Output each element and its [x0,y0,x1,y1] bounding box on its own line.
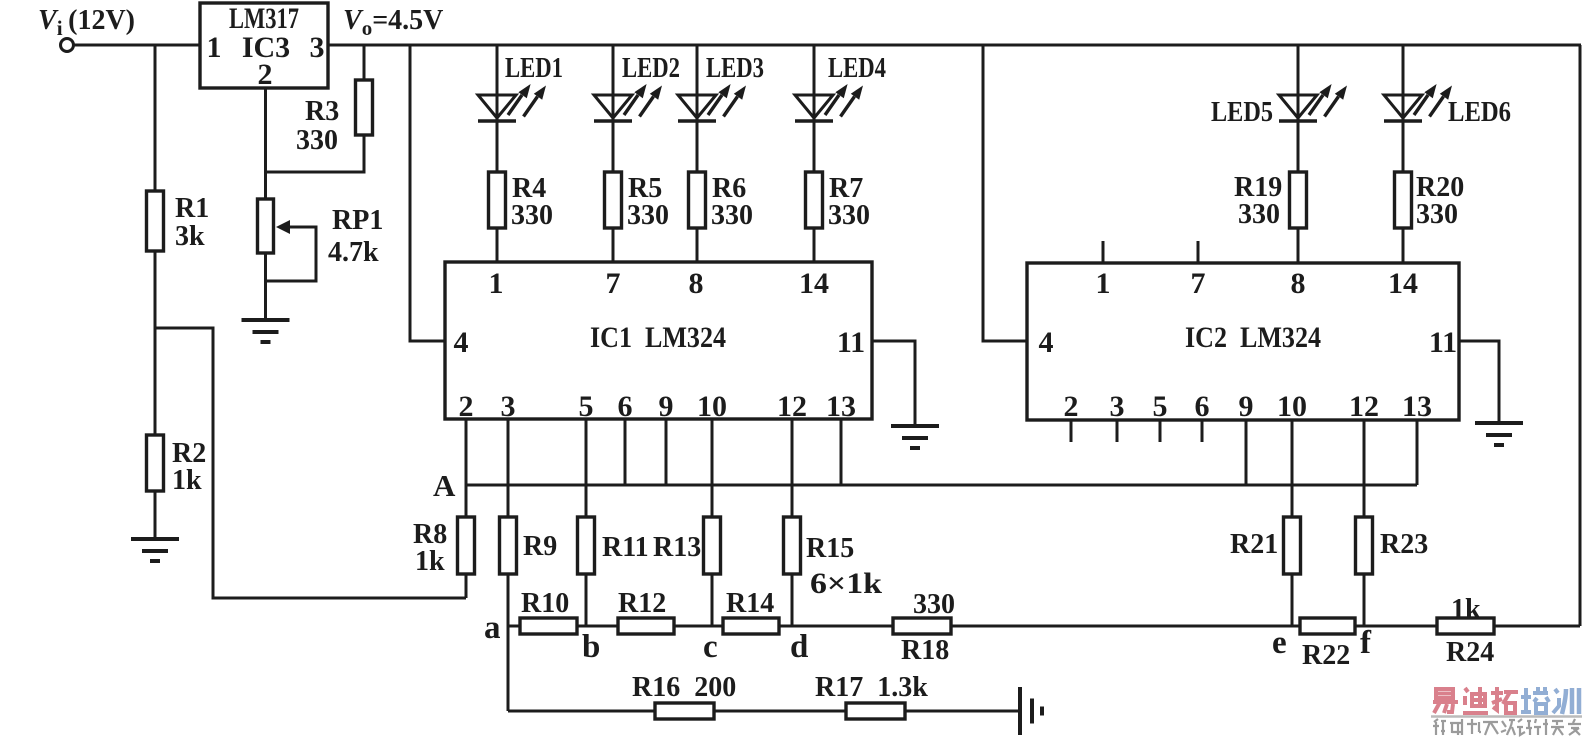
svg-text:LED3: LED3 [706,53,764,84]
ground below R2 [131,539,179,561]
node b [582,629,600,665]
wire input to IC3 pin1 [74,44,200,47]
wire R16/R17 row [508,710,1020,713]
ground below RP1 [242,320,290,342]
resistor R16 [632,672,736,719]
label Vi (12V) [38,5,135,40]
wire IC1 pin12 [791,419,794,517]
svg-text:11: 11 [837,326,865,359]
resistor R22 [1300,618,1355,671]
svg-text:3: 3 [1110,390,1125,423]
resistor R8 [413,517,475,598]
wire IC2 pin10 [1291,420,1294,517]
svg-text:e: e [1272,625,1287,661]
resistor R21 [1230,517,1301,626]
wire IC1 pin9 to bus A [665,419,668,485]
svg-text:3k: 3k [175,221,205,252]
resistor R2 [147,435,207,539]
svg-text:9: 9 [659,390,674,423]
wire node a down to R16 row [507,626,510,711]
svg-text:b: b [582,629,600,665]
wire IC1 pin13 to bus A [840,419,843,485]
svg-text:LED2: LED2 [622,53,680,84]
svg-text:R16 200: R16 200 [632,672,736,703]
svg-text:IC1 LM324: IC1 LM324 [590,321,726,354]
resistor R19 [1234,172,1307,263]
op-amp IC1 LM324 [445,262,872,423]
svg-text:3: 3 [310,31,325,64]
svg-text:9: 9 [1239,390,1254,423]
svg-text:R10: R10 [521,588,569,619]
svg-text:d: d [790,629,808,665]
svg-text:3: 3 [501,390,516,423]
svg-text:IC2 LM324: IC2 LM324 [1185,321,1321,354]
svg-text:R18: R18 [901,635,949,666]
label node A [433,468,456,503]
wire IC1 pin4 to Vo rail [410,45,445,341]
IC2 pin3 stub [1116,420,1119,442]
wire IC2 pin4 to Vo rail [983,45,1027,341]
resistor R7 [806,172,871,262]
LED LED4 [795,45,886,172]
resistor R11 [578,517,649,626]
watermark underline [1431,715,1582,718]
resistor R18 [893,589,955,666]
svg-text:1: 1 [207,31,222,64]
ground at IC1 pin11 [891,426,939,448]
svg-text:14: 14 [799,267,829,300]
wire Vo right-edge drop to R24 [1579,45,1582,626]
wire IC3 pin2 (ADJ) [264,88,267,199]
svg-text:330: 330 [913,589,955,620]
svg-text:10: 10 [1277,390,1307,423]
svg-text:R9: R9 [523,531,557,562]
svg-text:R24: R24 [1446,637,1494,668]
svg-text:13: 13 [826,390,856,423]
svg-text:LED4: LED4 [828,53,886,84]
svg-text:R17 1.3k: R17 1.3k [815,672,928,703]
resistor R24 [1437,594,1494,668]
node f [1360,625,1372,661]
svg-text:f: f [1360,625,1372,661]
svg-text:2: 2 [1064,390,1079,423]
svg-text:6×1k: 6×1k [810,567,882,600]
svg-text:330: 330 [296,125,338,156]
svg-text:A: A [433,468,456,503]
wire Vo rail [328,44,1581,47]
svg-text:1: 1 [1096,267,1111,300]
svg-text:R14: R14 [726,588,774,619]
svg-text:1k: 1k [172,465,202,496]
op-amp IC2 LM324 [1027,263,1459,423]
LED LED3 [678,45,764,172]
wire IC1 pin11 to ground [872,341,915,424]
svg-text:6: 6 [618,390,633,423]
wire IC2 pin9 to bus A [1245,420,1248,485]
label Vo=4.5V [343,5,443,40]
resistor R5 [605,172,670,262]
wire IC2 pin11 to ground [1459,341,1499,421]
resistor R14 [723,588,779,634]
svg-text:RP1: RP1 [332,205,383,236]
wire IC1 pin5 [585,419,588,517]
svg-text:R21: R21 [1230,529,1278,560]
wire IC2 pin12 [1363,420,1366,517]
node A bus [466,484,1417,487]
resistor R4 [489,172,554,262]
resistor R10 [520,588,577,634]
svg-text:R13: R13 [653,532,701,563]
svg-text:8: 8 [1291,267,1306,300]
svg-text:1k: 1k [1451,594,1481,625]
LED LED5 [1211,45,1347,172]
svg-text:LED5: LED5 [1211,97,1273,128]
IC2 pin7 stub [1197,241,1200,263]
svg-text:5: 5 [1153,390,1168,423]
svg-text:4: 4 [1039,326,1054,359]
wire resistor chain a-f [508,625,1580,628]
svg-text:330: 330 [711,200,753,231]
svg-text:LED1: LED1 [505,53,563,84]
svg-text:R12: R12 [618,588,666,619]
svg-text:12: 12 [1349,390,1379,423]
resistor R3 [266,45,373,172]
terminal Vi input [61,39,74,52]
svg-text:11: 11 [1429,326,1457,359]
LED LED1 [478,45,563,172]
ground at IC2 pin11 [1475,423,1523,445]
wire IC1 pin10 [711,419,714,517]
wire R1/R2 node to R8 bottom [155,328,466,598]
resistor R17 [815,672,928,719]
svg-text:LED6: LED6 [1448,97,1511,128]
svg-text:330: 330 [511,200,553,231]
svg-text:4.7k: 4.7k [328,237,379,268]
wire IC1 pin2 [465,419,468,517]
svg-text:7: 7 [1191,267,1206,300]
svg-text:7: 7 [606,267,621,300]
svg-text:12: 12 [777,390,807,423]
svg-text:5: 5 [579,390,594,423]
IC2 pin2 stub [1070,420,1073,442]
svg-text:2: 2 [258,58,273,91]
svg-text:330: 330 [828,200,870,231]
node e [1272,625,1287,661]
watermark subtitle [1433,719,1581,735]
svg-text:330: 330 [1416,199,1458,230]
wire IC1 pin3 [507,419,510,517]
svg-text:R11: R11 [602,532,649,563]
regulator IC3 LM317 [200,2,328,91]
resistor R6 [689,172,754,262]
svg-text:a: a [484,610,501,646]
svg-text:c: c [703,629,718,665]
wire IC2 pin13 to bus A [1416,420,1419,485]
resistor R13 [653,517,721,626]
resistor R1 [147,45,210,435]
svg-text:2: 2 [459,390,474,423]
svg-text:Vi (12V): Vi (12V) [38,5,135,40]
svg-text:13: 13 [1402,390,1432,423]
svg-text:330: 330 [1238,199,1280,230]
watermark logo text [1433,687,1579,714]
resistor R9 [500,517,558,626]
svg-text:10: 10 [697,390,727,423]
resistor R23 [1356,517,1429,626]
node d [790,629,808,665]
node a [484,610,501,646]
svg-text:6: 6 [1195,390,1210,423]
node c [703,629,718,665]
svg-text:R3: R3 [305,96,339,127]
IC2 pin1 stub [1102,241,1105,263]
svg-text:1k: 1k [415,546,445,577]
LED LED6 [1384,45,1511,172]
svg-text:R15: R15 [806,533,854,564]
LED LED2 [594,45,680,172]
svg-text:14: 14 [1388,267,1418,300]
IC2 pin6 stub [1201,420,1204,442]
svg-text:R23: R23 [1380,529,1428,560]
svg-text:R1: R1 [175,193,209,224]
potentiometer RP1 [258,199,384,320]
IC2 pin5 stub [1159,420,1162,442]
resistor R15 [784,517,883,626]
resistor R20 [1395,172,1465,263]
svg-text:8: 8 [689,267,704,300]
wire IC1 pin6 to bus A [624,419,627,485]
svg-text:R22: R22 [1302,640,1350,671]
svg-text:1: 1 [489,267,504,300]
ground at end of R17 row [1020,687,1042,735]
resistor R12 [618,588,674,634]
svg-text:4: 4 [454,326,469,359]
svg-text:Vo=4.5V: Vo=4.5V [343,5,443,40]
svg-text:330: 330 [627,200,669,231]
